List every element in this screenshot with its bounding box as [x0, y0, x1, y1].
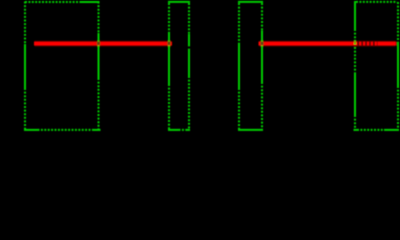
wire: box2 right edge x=189: [188, 3, 190, 34]
wire: box2 left edge x=169: [168, 3, 170, 33]
wire: box1 top edge dotted: [25, 1, 81, 3]
wire: box4 bottom edge: [354, 129, 358, 131]
wire: red net segment 1 (left): [34, 42, 172, 46]
wire: red net segment 2 halo: [259, 41, 396, 47]
node: green dash over red at box4 left edge: [354, 42, 356, 44]
wire: box1 left edge x=25: [24, 2, 26, 45]
wire: box4 right edge x=398: [397, 2, 399, 43]
wire: box4 top edge dotted: [356, 1, 397, 3]
wire: box2 bottom edge: [168, 129, 179, 131]
wire: box3 bottom edge solid: [238, 129, 263, 131]
wire: box3 top edge solid: [238, 1, 263, 3]
wire: box3 right edge x=262: [261, 3, 263, 31]
wire: box2 top edge solid: [168, 1, 190, 3]
region box 2 (dashed device outline, left narrow pulse): [168, 2, 190, 130]
wire: box1 top edge solid: [81, 1, 100, 3]
wire: box3 left edge x=239: [238, 3, 240, 44]
region box 3 (dashed device outline, right narrow pulse): [238, 2, 263, 130]
wire: box1 right edge x=98.5: [98, 2, 100, 34]
wire: red net segment 1 halo: [35, 41, 172, 47]
junction: net crossing at box2 left edge: [167, 42, 170, 45]
junction: net crossing at box1 right edge: [97, 42, 100, 45]
wire: box1 bottom edge: [24, 129, 38, 131]
region box 4 (dashed device outline, right wide pulse): [354, 1, 400, 130]
wire: box4 left edge x=355: [354, 1, 356, 29]
junction: net crossing at box3 right edge: [260, 42, 263, 45]
region box 1 (dashed device outline, left wide pulse): [24, 2, 101, 130]
wire: red net segment 2 (right): [259, 42, 397, 46]
